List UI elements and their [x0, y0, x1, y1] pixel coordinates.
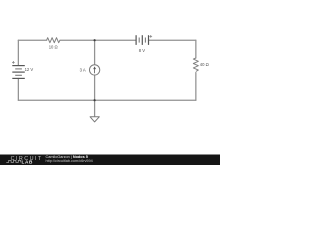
wire top rail middle segment: [60, 39, 136, 41]
wire ground stub: [94, 100, 96, 116]
svg-text:8 V: 8 V: [139, 48, 145, 53]
wire left rail lower: [17, 79, 19, 101]
wire right rail lower: [195, 73, 197, 101]
svg-text:http://circuitlab.com/c6rv594: http://circuitlab.com/c6rv594: [46, 159, 93, 163]
svg-text:LAB: LAB: [22, 160, 33, 165]
battery V2 8V plates: [136, 35, 148, 45]
svg-text:10 Ω: 10 Ω: [49, 44, 58, 49]
current source I1 arrow: [94, 69, 96, 73]
junction dot top: [94, 39, 96, 41]
current source I1 circle: [89, 65, 99, 75]
wire left rail upper: [17, 40, 19, 65]
footer circuitlab logo waveform: [6, 160, 20, 162]
wire top rail right segment: [149, 39, 196, 41]
wire bottom rail: [18, 99, 196, 101]
wire middle branch lower: [94, 75, 96, 100]
wire right rail upper: [195, 40, 197, 58]
wire top rail left segment: [18, 39, 46, 41]
svg-text:3 A: 3 A: [80, 68, 86, 73]
battery V2 plus sign: [149, 35, 152, 38]
svg-text:40 Ω: 40 Ω: [200, 62, 209, 67]
resistor R 40ohm zigzag: [193, 58, 198, 71]
svg-text:12 V: 12 V: [25, 67, 34, 72]
resistor R 10ohm zigzag: [47, 38, 60, 43]
ground symbol: [90, 117, 99, 122]
wire middle branch upper: [94, 40, 96, 64]
battery V1 12V plates: [12, 66, 24, 79]
footer black bar: [0, 155, 220, 166]
junction dot bottom: [94, 99, 96, 101]
battery V1 plus sign: [12, 61, 15, 64]
